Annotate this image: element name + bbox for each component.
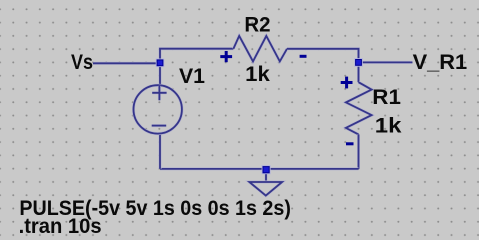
wire Vs lead bbox=[93, 62, 160, 65]
wire top-right R2 to right corner and down bbox=[287, 49, 359, 63]
svg-text:Vs: Vs bbox=[71, 51, 93, 74]
svg-text:R2: R2 bbox=[244, 14, 270, 37]
R2 plus polarity label bbox=[220, 51, 232, 62]
junction node ground bbox=[262, 165, 271, 174]
voltage source V1 circle bbox=[134, 85, 182, 133]
wire bottom rail bbox=[160, 167, 359, 170]
R1 plus polarity label bbox=[341, 77, 353, 89]
svg-text:R1: R1 bbox=[372, 86, 401, 109]
wire V1 top pin bbox=[159, 63, 162, 85]
V1 plus symbol bbox=[152, 86, 166, 100]
svg-text:1k: 1k bbox=[245, 63, 270, 86]
wire to V_R1 label bbox=[359, 61, 413, 64]
resistor R2 body bbox=[233, 36, 287, 62]
R2 minus polarity label bbox=[300, 55, 307, 58]
ground symbol bbox=[249, 182, 282, 196]
svg-text:V1: V1 bbox=[179, 65, 205, 88]
ground stem bbox=[265, 169, 268, 182]
junction node V_R1 bbox=[354, 58, 363, 67]
svg-text:1k: 1k bbox=[375, 114, 402, 137]
wire right junction down to R1 top bbox=[357, 62, 360, 82]
svg-text:V_R1: V_R1 bbox=[413, 51, 468, 74]
V1 minus symbol bbox=[152, 124, 167, 127]
junction node Vs/V1 bbox=[156, 59, 165, 68]
svg-text:.tran 10s: .tran 10s bbox=[19, 215, 102, 237]
wire top-left from junction up and right to R2 bbox=[160, 49, 233, 64]
wire R1 bottom lead bbox=[357, 134, 360, 169]
resistor R1 body bbox=[346, 82, 372, 134]
R1 minus polarity label bbox=[346, 142, 354, 145]
wire V1 bottom pin bbox=[159, 134, 162, 169]
